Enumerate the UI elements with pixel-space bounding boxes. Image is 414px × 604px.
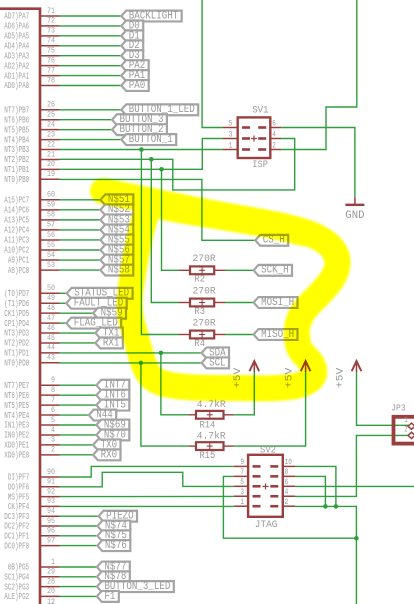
resistor R2 (270R) [179,266,225,274]
svg-text:270R: 270R [193,285,217,297]
U1 pin 45 (NT2)PD2) stub, number and name [4,334,59,349]
U1 pin 59 (A14)PC6) stub, number and name [4,201,59,216]
svg-text:3: 3 [240,487,244,497]
svg-text:45: 45 [47,334,55,343]
svg-text:71: 71 [47,7,55,16]
wire net FAULT_LED from pin 49 [60,302,67,304]
svg-text:24: 24 [47,120,55,129]
svg-text:JP3: JP3 [391,404,405,414]
svg-text:ISP: ISP [252,159,268,171]
wire net SDA branch down to R14 [161,353,189,415]
U1 pin 56 (A11)PC3) stub, number and name [4,231,59,246]
svg-text:5: 5 [240,477,244,487]
SV2 pin 3 stub and number [234,487,248,497]
U1 pin 43 (NT0)PD0) stub, number and name [4,354,59,369]
U1 pin 96 (DC1)PF1) stub, number and name [4,527,59,542]
svg-text:53: 53 [47,261,55,270]
svg-text:R15: R15 [199,450,215,462]
node PA2 net label [121,60,148,72]
node N$54 net label [100,224,133,236]
SV1 pin 2 stub and number [270,140,281,150]
resistor R15 (4.7kR) [189,442,234,450]
svg-text:7: 7 [240,467,244,477]
U1 pin 94 (DC3)PF3) stub, number and name [4,507,59,522]
wire net D2 from pin 74 [60,45,122,47]
node BUTTON_1 net label [121,134,176,146]
U1 pin 2 (XD0)PE0) stub, number and name [4,446,59,461]
svg-text:1: 1 [240,497,244,507]
wire net PIEZO from pin 94 [60,515,99,517]
wire net BUTTON_3_LED from pin 28 [60,586,97,588]
svg-text:57: 57 [47,221,55,230]
svg-text:74: 74 [47,37,55,46]
svg-text:20: 20 [47,587,55,596]
U1 pin 7 (NT5)PE5) stub, number and name [4,396,59,411]
wire net N$76 from pin 97 [60,545,98,547]
junction SDA junction [159,351,164,356]
wire net N$69 from pin 5 [60,424,97,426]
svg-text:XD0)PE0: XD0)PE0 [4,450,29,461]
wire net N$49 from pin 58 [60,219,101,221]
wire net PA2 from pin 76 [60,65,122,67]
svg-text:GND: GND [345,210,364,222]
svg-text:60: 60 [47,191,55,200]
svg-text:9: 9 [240,457,244,467]
wire net TX0 from pin 3 [60,444,94,446]
wire net MISO: pin 22 to SV1 pin 1 [60,149,223,151]
wire net +5V: R14 to supply arrow 1 [234,372,255,415]
U1 pin 25 (NT6)PB6) stub, number and name [4,111,59,126]
svg-text:49: 49 [47,294,55,303]
node BUTTON_3_LED net label [97,581,174,593]
wire net FLAG_LED from pin 47 [60,322,67,324]
U1 pin 48 (CK1)PD5) stub, number and name [4,304,59,319]
U1 pin 53 (A8)PC0) stub, number and name [8,261,60,276]
wire net GND from SV1 pin 6 to GND symbol [281,128,355,198]
wire net SV2 pin 10 down to pin 2 row [295,466,336,506]
U1 pin 92 (MS)PF5) stub, number and name [8,487,60,502]
svg-text:PA0: PA0 [129,80,146,92]
U1 pin 19 (NT0)PB0) stub, number and name [4,170,59,185]
svg-text:4.7kR: 4.7kR [197,431,227,443]
svg-text:BUTTON_1: BUTTON_1 [129,134,173,146]
wire net SV2 pin 6 to right edge [295,485,414,487]
wire net STATUS_LED from pin 50 [60,292,67,294]
U1 pin 20 (NT1)PB1) stub, number and name [4,160,59,175]
supply symbol +5V (arrow 1 above R14) [233,361,259,388]
svg-text:58: 58 [47,211,55,220]
wire net RESET to SV1 pin 5 from top edge [202,0,223,128]
node N$76 net label [97,540,130,552]
wire net N$70 from pin 4 [60,434,97,436]
U1 pin 95 (DC2)PF2) stub, number and name [4,517,59,532]
wire net N$59 from pin 48 [60,312,94,314]
junction JTAG junction B [334,504,339,509]
svg-text:94: 94 [47,507,55,516]
U1 pin 29 (SC1)PG4) stub, number and name [4,568,59,583]
U1 pin 90 (DI)PF7) stub, number and name [8,468,60,483]
wire net RX1 from pin 45 [60,342,96,344]
svg-text:96: 96 [47,527,55,536]
U1 pin 57 (A12)PC4) stub, number and name [4,221,59,236]
svg-text:270R: 270R [193,253,217,265]
svg-text:43: 43 [47,354,55,363]
wire net VCC from SV1 pin 2 up to top edge [281,0,357,150]
node FLAG_LED net label [66,317,121,329]
svg-text:19: 19 [47,170,55,179]
supply symbol +5V (arrow 2 above R15) [284,361,310,388]
svg-text:4: 4 [285,487,289,497]
junction SCK junction [159,167,164,172]
wire net MOSI_H: R3 to label [225,302,253,304]
SV2 pin 1 stub and number [234,497,248,507]
wire net TDI: pin 90 to SV2 pin 9 [60,466,234,477]
U1 pin 9 (NT7)PE7) stub, number and name [4,376,59,391]
yellow highlighter annotation loop [103,191,338,388]
wire net SV2 pin 2 to bottom bus [295,506,356,538]
wire net N$48 from pin 57 [60,229,101,231]
node N$78 net label [97,571,130,583]
node MOSI_H net label [254,297,298,309]
wire net PA1 from pin 77 [60,75,122,77]
wire net +5V: supply arrow 3 to JP3 pin 1 [357,372,410,426]
wire net INT7 from pin 9 [60,384,97,386]
svg-text:R2: R2 [194,274,205,286]
svg-text:RX1: RX1 [103,337,120,349]
svg-text:+5V: +5V [335,367,346,388]
node BACKLIGHT net label [121,10,181,22]
svg-text:R3: R3 [194,306,205,318]
wire net RX0 from pin 2 [60,454,94,456]
svg-text:75: 75 [47,47,55,56]
svg-text:6: 6 [51,406,55,415]
node CS_H net label [255,235,288,247]
svg-text:8: 8 [285,467,289,477]
wire net bottom bus down to bottom edge [355,538,357,604]
U1 pin 58 (A13)PC5) stub, number and name [4,211,59,226]
wire net N$78 from pin 29 [60,576,97,578]
wire net SV2 pin 8 down to pin 2 row [295,476,325,506]
wire net F1 from pin 20 [60,595,97,597]
SV2 pin 6 stub and number [283,477,295,487]
SV2 pin 8 stub and number [283,467,295,477]
node N44 net label [89,409,116,421]
node N$55 net label [100,234,133,246]
node BUTTON_2 net label [112,124,167,136]
svg-text:55: 55 [47,241,55,250]
U1 pin 74 (AD4)PA4) stub, number and name [4,37,59,52]
svg-text:29: 29 [47,568,55,577]
svg-text:2: 2 [404,424,407,434]
svg-text:59: 59 [47,201,55,210]
SV1 pin 6 stub and number [270,118,281,128]
node N$53 net label [100,214,133,226]
U1 pin 3 (XD0)PE1) stub, number and name [4,436,59,451]
svg-text:1: 1 [51,558,55,567]
wire net N$77 from pin 1 [60,566,97,568]
svg-text:97: 97 [47,536,55,545]
svg-text:46: 46 [47,324,55,333]
svg-text:95: 95 [47,517,55,526]
U1 pin 72 (AD6)PA6) stub, number and name [4,17,59,32]
junction MOSI junction [149,157,154,162]
wire net N$44 from pin 53 [60,269,101,271]
U1 pin 47 (CP1)PD4) stub, number and name [4,314,59,329]
node F1 (clipped at bottom) net label [97,591,119,603]
SV1 pin 5 stub and number [223,118,238,128]
svg-text:28: 28 [47,577,55,586]
node MISO_H net label [254,329,298,341]
wire net +5V: R15 to supply arrow 2 [234,372,306,447]
svg-text:47: 47 [47,314,55,323]
wire net MISO branch down to R4 [141,150,179,335]
wire net MISO_H: R4 to label [225,334,253,336]
svg-text:RX0: RX0 [101,449,118,461]
node INT6 net label [96,390,129,402]
node PA0 net label [121,80,148,92]
wire net BUTTON_1 from pin 23 [60,139,122,141]
U1 pin 26 (NT7)PB7) stub, number and name [4,101,59,116]
U1 pin 97 (DC0)PF0) stub, number and name [4,536,59,551]
svg-text:21: 21 [47,150,55,159]
node N$51 net label [100,194,133,206]
SV2 pin 7 stub and number [234,467,248,477]
SV2 pin 5 stub and number [234,477,248,487]
wire net SCL branch down to R15 [141,363,189,446]
wire net N$75 from pin 96 [60,535,98,537]
wire net TDO: pin 91 to SV2 pin 5 (with bridge) [60,472,234,487]
node D1 net label [121,30,143,42]
svg-text:JTAG: JTAG [255,519,278,531]
U1 pin 6 (NT4)PE4) stub, number and name [4,406,59,421]
wire net SCK branch down to R2 [162,169,180,270]
wire net N44 from pin 6 [60,414,89,416]
node N$56 net label [100,244,133,256]
wire net SDA from pin 44 [60,352,202,354]
U1 pin 76 (AD2)PA2) stub, number and name [4,56,59,71]
svg-text:NT0)PD0: NT0)PD0 [4,358,29,369]
svg-text:23: 23 [47,130,55,139]
wire net D3 from pin 75 [60,55,122,57]
wire net PA0 from pin 78 [60,85,122,87]
SV2 pin 10 stub and number [283,457,295,467]
SV2 pin 2 stub and number [283,497,295,507]
node BUTTON_3 net label [112,114,167,126]
U1 pin 22 (NT3)PB3) stub, number and name [4,140,59,155]
U1 pin 4 (IN0)PE2) stub, number and name [4,426,59,441]
svg-text:SCK_H: SCK_H [261,265,289,277]
U1 pin 46 (NT3)PD3) stub, number and name [4,324,59,339]
svg-text:ALE)PG2: ALE)PG2 [4,591,29,602]
svg-text:7: 7 [51,396,55,405]
node PIEZO net label [99,511,137,523]
svg-text:56: 56 [47,231,55,240]
svg-text:72: 72 [47,17,55,26]
svg-text:73: 73 [47,27,55,36]
svg-text:12: 12 [47,597,55,604]
svg-text:R4: R4 [194,338,205,350]
U1 pin 54 (A9)PC1) stub, number and name [8,251,60,266]
svg-text:10: 10 [285,457,292,467]
SV2 pin 4 stub and number [283,487,295,497]
U1 pin 91 (DO)PF6) stub, number and name [8,478,60,493]
node FAULT_LED net label [66,298,126,310]
node N$74 net label [97,520,130,532]
node N$75 net label [97,530,130,542]
resistor R14 (4.7kR) [189,411,234,419]
svg-text:F1: F1 [104,591,115,603]
wire net SCL from pin 43 [60,362,202,364]
svg-text:1: 1 [404,415,407,425]
svg-text:5: 5 [229,118,233,128]
svg-text:8: 8 [51,386,55,395]
svg-text:44: 44 [47,344,55,353]
wire net N$46 from pin 55 [60,249,101,251]
svg-text:90: 90 [47,468,55,477]
svg-text:54: 54 [47,251,55,260]
svg-text:93: 93 [47,497,55,506]
svg-text:AD0)PA0: AD0)PA0 [4,80,29,91]
U1 pin 20 (ALE)PG2) stub, number and name [4,587,59,602]
connector JP3 (partially off-canvas right) [394,417,414,444]
node D2 net label [121,40,143,52]
svg-text:48: 48 [47,304,55,313]
U1 pin 73 (AD5)PA5) stub, number and name [4,27,59,42]
svg-text:4: 4 [51,426,55,435]
svg-text:6: 6 [285,477,289,487]
SV2 pin 9 stub and number [234,457,248,467]
svg-text:3: 3 [229,129,233,139]
SV1 pin 3 stub and number [223,129,238,139]
junction MISO junction [139,147,144,152]
node BUTTON_1_LED net label [121,104,198,116]
svg-text:SV1: SV1 [252,105,268,117]
node N$77 net label [97,561,130,573]
svg-text:SV2: SV2 [260,445,276,457]
junction JTAG junction A [323,504,328,509]
U1 pin 24 (NT5)PB5) stub, number and name [4,120,59,135]
U1 pin 5 (IN1)PE3) stub, number and name [4,416,59,431]
wire net N$47 from pin 56 [60,239,101,241]
node D0 net label [121,20,143,32]
U1 pin 49 ((T1)PD6) stub, number and name [4,294,59,309]
node SCK_H net label [254,265,292,277]
svg-text:77: 77 [47,66,55,75]
U1 pin 50 ((T0)PD7) stub, number and name [4,284,59,299]
wire net BUTTON_2 from pin 24 [60,129,113,131]
node N$57 net label [100,254,133,266]
wire net BUTTON_3 from pin 25 [60,119,113,121]
svg-text:2: 2 [51,446,55,455]
node RX1 net label [95,337,122,349]
junction bottom bus junction [354,536,359,541]
wire net TX1 from pin 46 [60,332,96,334]
node N$58 net label [100,264,133,276]
wire net SCK_H: R2 to label [225,269,253,271]
svg-text:2: 2 [272,140,276,150]
svg-text:92: 92 [47,487,55,496]
wire net JP3 pin 2 to SV2 pin 4 [295,435,409,496]
svg-text:2: 2 [285,497,289,507]
svg-text:1: 1 [229,140,233,150]
svg-text:4: 4 [272,129,276,139]
node INT7 net label [96,380,129,392]
junction SCL junction [139,361,144,366]
node RX0 net label [93,449,120,461]
U1 pin 75 (AD3)PA3) stub, number and name [4,47,59,62]
svg-text:A8)PC0: A8)PC0 [8,265,29,276]
wire net INT6 from pin 8 [60,394,97,396]
U1 pin 93 (CK)PF4) stub, number and name [8,497,60,512]
SV1 pin 1 stub and number [223,140,238,150]
node N$70 net label [96,429,129,441]
svg-text:6: 6 [272,118,276,128]
wire net TMS: pin 92 to SV2 pin 3 [60,495,234,497]
SV1 pin 4 stub and number [270,129,281,139]
resistor R3 (270R) [179,299,225,307]
node STATUS_LED net label [67,288,133,300]
node SDA net label [202,347,229,359]
wire net BUTTON_1_LED from pin 26 [60,109,122,111]
U1 pin 1 (0B)PG5) stub, number and name [8,558,60,573]
U1 pin 8 (NT6)PE6) stub, number and name [4,386,59,401]
supply symbol +5V (arrow 3 at JP3) [335,361,361,388]
node TX1 net label [95,327,122,339]
IC U1 body outline (microcontroller, partially off-canvas left) [0,9,40,604]
wire net N$45 from pin 54 [60,259,101,261]
U1 pin 77 (AD1)PA1) stub, number and name [4,66,59,81]
wire net D1 from pin 73 [60,35,122,37]
wire net INT5 from pin 7 [60,404,97,406]
svg-text:5: 5 [51,416,55,425]
wire net N$51 from pin 60 [60,199,101,201]
node N$69 net label [96,419,129,431]
svg-text:22: 22 [47,140,55,149]
wire net N$74 from pin 95 [60,525,98,527]
node INT5 net label [96,400,129,412]
svg-text:NT0)PB0: NT0)PB0 [4,174,29,185]
node SCL net label [202,357,229,369]
svg-text:3: 3 [51,436,55,445]
node TX0 net label [93,439,120,451]
connector SV1 (ISP header) body [238,117,271,158]
svg-text:20: 20 [47,160,55,169]
ground symbol GND [345,197,364,222]
U1 pin 78 (AD0)PA0) stub, number and name [4,76,59,91]
svg-text:MOSI_H: MOSI_H [261,297,294,309]
U1 pin 21 (NT2)PB2) stub, number and name [4,150,59,165]
U1 pin 12 stub partially visible at bottom edge [40,597,60,604]
svg-text:50: 50 [47,284,55,293]
wire net MOSI branch down to R3 [151,159,179,302]
svg-text:DC0)PF0: DC0)PF0 [4,540,29,551]
U1 pin 28 (SC2)PG3) stub, number and name [4,577,59,592]
U1 pin 44 (NT1)PD1) stub, number and name [4,344,59,359]
svg-text:78: 78 [47,76,55,85]
svg-text:9: 9 [51,376,55,385]
node PA1 net label [121,70,148,82]
U1 pin 55 (A10)PC2) stub, number and name [4,241,59,256]
node N$52 net label [100,204,133,216]
svg-text:270R: 270R [193,317,217,329]
U1 pin 71 (AD7)PA7) stub, number and name [4,7,59,22]
U1 pin 60 (A15)PC7) stub, number and name [4,191,59,206]
wire net bottom bus to SV2 pin 7 [223,476,356,538]
svg-text:25: 25 [47,111,55,120]
svg-text:SCL: SCL [209,357,226,369]
wire net TCK: pin 93 to SV2 pin 1 [60,505,234,507]
U1 pin 23 (NT4)PB4) stub, number and name [4,130,59,145]
